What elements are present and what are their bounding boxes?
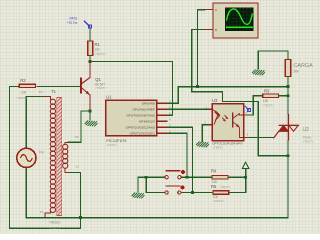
wire R2 left down-bottom return	[10, 86, 81, 228]
svg-text:R4: R4	[211, 168, 217, 173]
transformer T1 core	[57, 98, 62, 216]
svg-text:Q1: Q1	[95, 77, 101, 82]
ground (CARGA top)	[252, 70, 265, 76]
junction node bottom rail at S1	[79, 216, 82, 219]
wire IC pin7 stub joint	[167, 102, 178, 104]
svg-text:FM: FM	[39, 151, 44, 155]
svg-text:GP0/AN0: GP0/AN0	[142, 101, 155, 105]
svg-text:RF01: RF01	[70, 17, 78, 21]
wire R2 to Q1 base	[37, 85, 80, 87]
wire y86 rail to CARGA column	[178, 87, 288, 104]
optocoupler U3 pin stubs	[208, 109, 248, 137]
resistor R3	[263, 89, 279, 108]
wire sine top to transformer P2	[26, 97, 44, 149]
svg-text:<TEXT>: <TEXT>	[106, 143, 117, 147]
svg-text:TR0512: TR0512	[49, 221, 61, 225]
junction node buttons left	[145, 176, 148, 179]
svg-text:T1: T1	[51, 89, 57, 94]
optocoupler U3	[212, 98, 244, 150]
sine source FM	[17, 148, 44, 167]
ground (Q1 emitter)	[85, 121, 98, 127]
oscilloscope	[213, 3, 258, 38]
wire opto pin3 to triac gate	[248, 137, 274, 139]
svg-text:<TEXT>: <TEXT>	[213, 199, 224, 203]
transformer T1 labels	[39, 89, 80, 230]
wire button2 right to R5	[181, 192, 213, 194]
optocoupler U3 internals	[213, 109, 244, 137]
ground (opto pin2)	[196, 142, 209, 148]
svg-text:10k: 10k	[21, 90, 27, 94]
svg-text:U2: U2	[303, 127, 310, 133]
svg-text:50k: 50k	[294, 70, 300, 74]
svg-text:<TEXT>: <TEXT>	[95, 86, 106, 90]
svg-text:<TEXT>: <TEXT>	[220, 185, 231, 189]
junction node scope B at rail	[287, 154, 290, 157]
transformer T1 primary coil	[44, 97, 56, 218]
wire transformer S1 down to bottom rail	[68, 172, 80, 228]
junction node y86 rail at CARGA column	[287, 85, 290, 88]
transistor Q1	[80, 62, 107, 112]
svg-text:R5: R5	[211, 184, 217, 189]
wire IC pin6 to opto pin1	[167, 108, 208, 110]
svg-text:+70.7m: +70.7m	[67, 21, 78, 25]
svg-text:<TEXT>: <TEXT>	[95, 52, 106, 56]
wire R4 right to power column	[228, 176, 246, 178]
wire bottom rail	[26, 156, 288, 218]
svg-text:A: A	[215, 8, 217, 12]
svg-text:B: B	[215, 28, 217, 32]
svg-text:GP3/MCLR: GP3/MCLR	[139, 119, 156, 123]
junction node R3 right at rail	[287, 94, 290, 97]
svg-text:R2: R2	[20, 78, 26, 83]
svg-text:GP5/T1CKI/OSC1: GP5/T1CKI/OSC1	[130, 131, 155, 135]
voltage probe on opto pin4	[245, 106, 251, 112]
wire R1 top to probe	[89, 28, 91, 42]
svg-text:<TEXT>: <TEXT>	[16, 96, 27, 100]
power terminal arrow	[242, 162, 248, 168]
svg-text:P2: P2	[39, 90, 43, 94]
IC U1 pin labels	[126, 101, 156, 135]
svg-text:<TEXT>: <TEXT>	[49, 226, 60, 230]
junction node scope A on y86 rail	[196, 85, 199, 88]
wire button1 right to R4	[181, 176, 212, 178]
IC U1 PIC12F675	[106, 95, 157, 147]
svg-text:P1: P1	[40, 210, 44, 214]
IC U1 pin stubs	[157, 103, 168, 133]
svg-text:10k: 10k	[95, 48, 101, 52]
wire CARGA top to ground	[258, 51, 288, 69]
resistor R4	[211, 168, 231, 189]
svg-text:<TEXT>: <TEXT>	[212, 145, 223, 149]
junction node button1 right pin2	[186, 176, 189, 179]
wire CARGA bottom to triac MT2	[287, 77, 289, 115]
svg-text:S1: S1	[76, 165, 80, 169]
resistor R2	[16, 78, 35, 100]
triac U2	[274, 114, 314, 143]
wire IC pin3 to button2 row	[167, 127, 192, 192]
wire R1 bottom stub	[89, 56, 91, 62]
wire buttons ground net	[138, 177, 165, 192]
junction node R1-Q1 collector	[89, 60, 92, 63]
svg-text:<TEXT>: <TEXT>	[263, 103, 274, 107]
wire scope channel A	[198, 10, 205, 87]
junction node button2 right pin3	[191, 191, 194, 194]
ground (buttons)	[132, 193, 145, 199]
wire opto pin2 to ground	[202, 125, 208, 142]
svg-text:GP1/AN1/VREF: GP1/AN1/VREF	[133, 107, 155, 111]
wire R3 left to opto pin4	[248, 96, 263, 115]
voltage probe on R1	[67, 17, 92, 28]
wire Q1 emitter to ground	[89, 111, 91, 120]
svg-text:U3: U3	[212, 98, 218, 103]
wire IC pin2 to button1 row	[167, 133, 187, 177]
resistor R5	[213, 191, 229, 203]
optocoupler U3 pin numbers	[204, 105, 248, 136]
wire R1 bottom to IC pin5	[90, 62, 173, 116]
resistor R1	[88, 41, 106, 56]
IC U1 pin numbers	[169, 99, 171, 133]
wire scope channel B	[192, 29, 288, 155]
svg-text:U1: U1	[106, 95, 112, 100]
wire triac MT1 down	[287, 141, 289, 156]
svg-text:CARGA: CARGA	[294, 63, 314, 69]
svg-text:R3: R3	[264, 89, 270, 94]
junction node R4 right power	[244, 176, 247, 179]
svg-text:GP2/T0CKI/INT/AN2: GP2/T0CKI/INT/AN2	[126, 113, 155, 117]
svg-text:R1: R1	[95, 42, 101, 47]
junction node Q1 emitter-S2-ground	[89, 110, 92, 113]
oscilloscope pin stubs	[205, 10, 213, 30]
svg-text:<TEXT>: <TEXT>	[303, 139, 314, 143]
wire transformer S2 to Q1 emitter node	[68, 111, 90, 142]
resistor CARGA	[285, 60, 313, 77]
svg-text:GP4/T1G/OSC2/AN3: GP4/T1G/OSC2/AN3	[126, 125, 156, 129]
wire R3 right to rail	[279, 95, 289, 97]
push button 1	[165, 170, 185, 179]
push button 2	[165, 186, 185, 195]
transformer T1 secondary coil	[63, 142, 69, 172]
wire R5 right up to power terminal	[229, 169, 246, 193]
svg-text:S2: S2	[75, 135, 79, 139]
